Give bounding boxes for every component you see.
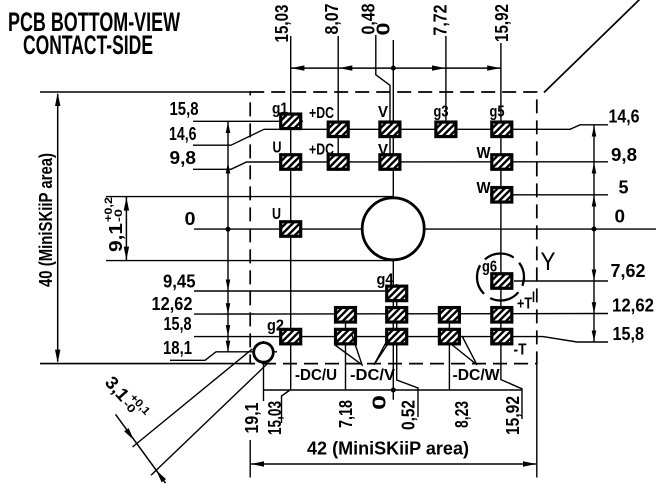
pad -DC/U lower: [327, 329, 364, 345]
row line 18,1 with jog: [170, 352, 277, 361]
svg-text:9,8: 9,8: [170, 148, 197, 168]
pad W row3: [483, 187, 520, 203]
junction dot left chain at 0: [226, 227, 231, 232]
svg-text:15,03: 15,03: [272, 5, 292, 43]
svg-text:15,8: 15,8: [613, 324, 645, 344]
svg-text:+T: +T: [517, 295, 532, 312]
column line hole 19,1: [263, 341, 265, 401]
svg-text:15,92: 15,92: [503, 396, 523, 435]
pad g4: [378, 285, 415, 301]
label 3,1 +0,1/-0: [101, 371, 152, 424]
wire: top extension line y=92: [40, 91, 250, 93]
pad g1: [272, 113, 309, 129]
svg-text:g1: g1: [272, 101, 288, 118]
svg-text:0: 0: [615, 207, 626, 227]
pad U row0: [272, 221, 309, 237]
bottom ordinate baseline: [264, 389, 523, 391]
svg-text:-DC/W: -DC/W: [453, 367, 500, 384]
label 19,1 bottom: [242, 403, 262, 434]
label 7,18 bottom: [336, 400, 356, 428]
svg-text:9,45: 9,45: [163, 272, 196, 292]
svg-text:9,1: 9,1: [106, 223, 126, 252]
column line module centre 0: [392, 40, 394, 400]
row line 9,8 with jog: [193, 162, 608, 170]
dimension 42 (MiniSKiiP area) line with arrows: [250, 463, 537, 465]
dimension 3,1 tangent line lower: [151, 363, 268, 475]
pad g5: [483, 121, 520, 137]
row line 15,8 bottom with jog: [194, 337, 608, 342]
row line 9,45 leader to g4: [194, 290, 386, 292]
svg-text:Y: Y: [541, 248, 556, 276]
svg-text:0: 0: [370, 395, 390, 410]
pad -DC/V lower: [378, 329, 415, 345]
svg-text:U: U: [273, 140, 282, 157]
pad V row1: [371, 121, 408, 137]
svg-text:0,52: 0,52: [399, 400, 419, 430]
label 8,23 bottom: [452, 401, 472, 428]
label 40 (MiniSKiiP area): [36, 153, 56, 287]
svg-text:-DC/V: -DC/V: [350, 367, 396, 384]
right chain dimension line: [593, 125, 595, 342]
dimension 3,1 tangent line upper: [133, 349, 253, 447]
column line U/g1/g2 15,03: [290, 36, 292, 390]
pad -DC/V upper: [378, 307, 415, 323]
junction dot right chain at 0: [592, 227, 597, 232]
column line -DC/U 7,18: [345, 306, 347, 390]
label 7,72 top: [431, 5, 451, 36]
svg-text:0: 0: [374, 23, 394, 36]
leader fan -DC/U: [335, 335, 362, 365]
label 0 bottom: [370, 395, 390, 410]
dimension 3,1 dim line with arrows: [116, 414, 166, 483]
column line g5/W/T 15,92 with jog to bottom label: [501, 43, 522, 419]
row line 0: [194, 228, 656, 230]
column line -DC/W 8,23: [448, 306, 450, 390]
pad g6: [483, 273, 520, 289]
svg-text:40 (MiniSKiiP area): 40 (MiniSKiiP area): [36, 153, 56, 287]
svg-text:12,62: 12,62: [152, 294, 193, 314]
svg-text:14,6: 14,6: [169, 124, 197, 144]
g6 dashed circle: [477, 254, 524, 301]
row line 14,6 with jogs: [193, 125, 608, 145]
junction dot top dimension at 0: [391, 66, 396, 71]
pad g3: [427, 121, 464, 137]
pad W row2: [483, 154, 520, 170]
column line g4 0,52 with jog: [397, 284, 418, 417]
mounting hole 3,1: [254, 343, 274, 363]
svg-text:18,1: 18,1: [163, 338, 192, 358]
svg-text:15,92: 15,92: [492, 4, 512, 42]
pad -DC/U upper: [327, 307, 364, 323]
svg-text:-T: -T: [514, 342, 527, 359]
42 dim extension line left: [249, 440, 251, 478]
dimension 9,1 vertical line with arrows: [125, 197, 127, 260]
pad -DC/W upper: [431, 307, 468, 323]
pad +T: [483, 307, 520, 323]
svg-text:15,03: 15,03: [265, 401, 285, 435]
svg-text:42 (MiniSKiiP area): 42 (MiniSKiiP area): [307, 439, 469, 459]
svg-text:g3: g3: [434, 104, 449, 121]
svg-text:12,62: 12,62: [612, 296, 654, 316]
leader fan -DC/V: [374, 335, 394, 365]
svg-text:5: 5: [619, 178, 629, 198]
pad -DC/W lower: [431, 329, 468, 345]
left chain dimension line: [227, 121, 229, 352]
svg-text:g2: g2: [267, 318, 284, 335]
column jog to bottom 15,03 label: [282, 390, 291, 424]
junction dot bottom baseline at 0: [391, 388, 396, 393]
svg-text:g6: g6: [482, 259, 497, 276]
svg-text:-DC/U: -DC/U: [295, 367, 337, 384]
tick for +T: [533, 292, 535, 303]
label 9,1 +0,2/-0: [103, 197, 126, 252]
pad V row2: [371, 154, 408, 170]
leader fan -DC/W: [451, 336, 477, 365]
row line g1 15,8: [193, 120, 303, 122]
svg-text:19,1: 19,1: [242, 403, 262, 434]
pad g2: [272, 329, 309, 345]
pad +DC row2: [320, 154, 357, 170]
top dimension line: [291, 67, 501, 69]
wire: bottom extension line y=363.6: [40, 363, 250, 365]
svg-text:V: V: [378, 104, 389, 121]
svg-text:W: W: [477, 145, 491, 162]
svg-text:8,07: 8,07: [322, 4, 342, 35]
label 0 top: [374, 23, 394, 36]
svg-text:+DC: +DC: [309, 142, 334, 159]
svg-text:g5: g5: [490, 104, 505, 121]
central hole circle 9,1: [362, 198, 424, 260]
label 0,52 bottom: [399, 400, 419, 430]
column line +DC 8,07: [337, 36, 339, 171]
row line 12,62: [194, 313, 608, 316]
svg-text:V: V: [378, 142, 389, 159]
svg-text:U: U: [272, 206, 281, 223]
svg-text:7,62: 7,62: [611, 261, 646, 281]
svg-text:9,8: 9,8: [611, 145, 637, 165]
pad -T: [483, 329, 520, 345]
dimension 40 (MiniSKiiP area) vertical line with arrows: [57, 94, 59, 362]
sheet corner diagonal line: [544, 0, 640, 93]
row line g6 7,62: [514, 280, 608, 282]
label 15,92 top: [492, 4, 512, 42]
row line W2 5: [490, 194, 608, 196]
svg-text:+DC: +DC: [309, 105, 334, 122]
label 15,03 bottom: [265, 401, 285, 435]
dimension 9,1 circle diameter: extension lines: [106, 196, 393, 198]
label 8,07 top: [322, 4, 342, 35]
svg-text:g4: g4: [377, 271, 394, 288]
pad +DC row1: [320, 121, 357, 137]
svg-text:0: 0: [185, 209, 196, 229]
svg-text:14,6: 14,6: [609, 107, 640, 127]
pad U row2: [272, 154, 309, 170]
svg-text:W: W: [477, 180, 491, 197]
svg-text:CONTACT-SIDE: CONTACT-SIDE: [23, 30, 153, 60]
MiniSKiiP area dashed outline: [250, 92, 537, 364]
label 15,92 bottom: [503, 396, 523, 435]
column line 0,48 with jog to V column: [376, 35, 390, 171]
42 dim extension line right: [536, 364, 538, 478]
svg-text:7,72: 7,72: [431, 5, 451, 36]
svg-text:15,8: 15,8: [170, 99, 199, 119]
svg-text:7,18: 7,18: [336, 400, 356, 428]
column line g3 7,72: [445, 36, 447, 138]
label 0,48 top: [359, 4, 379, 35]
svg-text:15,8: 15,8: [164, 314, 192, 334]
svg-text:8,23: 8,23: [452, 401, 472, 428]
label 15,03 top: [272, 5, 292, 43]
svg-text:-0: -0: [113, 209, 125, 222]
